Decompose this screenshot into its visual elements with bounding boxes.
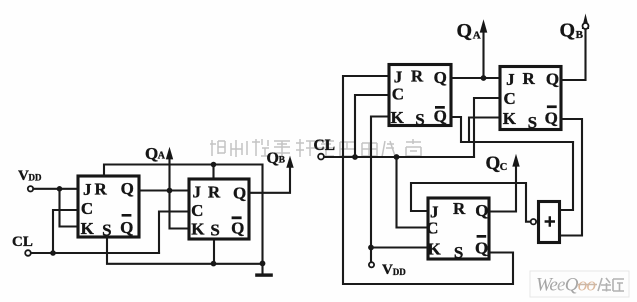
wire K bus down to adder right top	[560, 142, 573, 210]
wire K of FF3 to VDD	[371, 117, 388, 264]
svg-text:Q: Q	[475, 239, 488, 258]
node CL to C of FF5	[394, 154, 400, 160]
svg-text:Q: Q	[560, 20, 576, 42]
inverter bubble on adder input	[531, 219, 536, 224]
svg-text:Q: Q	[267, 150, 279, 167]
wire S bus from FF1 bottom	[107, 237, 263, 264]
svg-text:CL: CL	[12, 234, 33, 250]
svg-text:Q: Q	[120, 218, 133, 237]
wire CL line	[31, 252, 159, 254]
wire J of FF5 feedback to adder input	[411, 183, 530, 222]
svg-text:DD: DD	[393, 267, 406, 277]
FF2 Qbar overbar	[232, 216, 242, 219]
wire R bus from FF1 top to ground vertical	[104, 165, 263, 264]
svg-text:V: V	[382, 262, 393, 278]
wire Qbar of FF4 down to adder right bottom	[560, 119, 582, 236]
svg-text:C: C	[191, 201, 203, 220]
svg-text:R: R	[94, 180, 107, 199]
svg-text:Q: Q	[145, 144, 158, 163]
label VDD (left)	[18, 168, 42, 184]
wire CL to C of FF2	[159, 212, 188, 254]
wire Qbar of FF3 to K bus	[451, 117, 573, 142]
FF1 pin labels J R Q / C / K S Qbar	[81, 179, 134, 240]
svg-text:Q: Q	[233, 183, 246, 202]
flip-flop FF1 box	[78, 176, 139, 237]
node VDD junction	[57, 186, 63, 192]
svg-text:C: C	[81, 199, 93, 218]
svg-text:J: J	[83, 180, 92, 199]
FF4 Qbar overbar	[547, 105, 557, 108]
FF3 Qbar overbar	[435, 106, 445, 109]
wire QA output arrow	[168, 158, 170, 191]
svg-text:S: S	[454, 243, 463, 262]
svg-text:B: B	[279, 156, 286, 166]
terminal VDD (left)	[28, 186, 33, 191]
svg-text:K: K	[191, 219, 205, 238]
svg-text:A: A	[158, 151, 166, 162]
wire Q of FF5 to QC arrow	[489, 166, 516, 212]
flip-flop FF2 box	[189, 179, 249, 239]
wire CL to C of FF4	[474, 98, 499, 157]
svg-text:Q: Q	[434, 68, 447, 87]
node QA junction (right)	[481, 75, 487, 81]
terminal circle on QB arrow	[583, 23, 589, 29]
flip-flop FF5 box	[428, 198, 489, 259]
wire Q of FF2 to QB arrow	[249, 167, 290, 193]
svg-text:C: C	[392, 85, 404, 104]
svg-text:S: S	[528, 113, 537, 132]
svg-text:K: K	[391, 108, 405, 127]
FF5 Qbar overbar	[477, 235, 487, 238]
svg-text:Q: Q	[434, 106, 447, 125]
svg-text:C: C	[503, 89, 515, 108]
svg-text:Q: Q	[231, 218, 244, 237]
wire VDD line to K of FF5	[371, 246, 427, 248]
wire VDD to J of FF1	[33, 188, 77, 190]
svg-text:B: B	[576, 29, 584, 41]
flip-flop FF4 box	[500, 67, 561, 130]
node ground junction	[260, 261, 266, 267]
svg-text:C: C	[426, 219, 438, 238]
wire R of FF2	[212, 165, 214, 180]
adder plus sign	[545, 216, 555, 226]
svg-text:K: K	[427, 240, 441, 259]
label QB (right)	[560, 20, 584, 42]
wire CL to C of FF3	[355, 95, 388, 157]
svg-text:A: A	[473, 29, 481, 41]
adder U+ box	[539, 202, 560, 243]
svg-text:R: R	[453, 199, 466, 218]
svg-text:K: K	[81, 219, 95, 238]
svg-text:J: J	[394, 68, 403, 87]
wire CL to C of FF5	[397, 157, 428, 228]
svg-text:V: V	[18, 168, 29, 184]
label QB (left)	[267, 150, 286, 167]
wire Q of FF1 to J of FF2	[139, 189, 188, 191]
terminal CL (left)	[25, 250, 31, 256]
FF5 pin labels J R Q / C / K S Qbar	[426, 199, 488, 262]
FF4 pin labels J R Q / C / K S Qbar	[503, 69, 559, 132]
svg-text:K: K	[503, 109, 517, 128]
node CL to C of FF3	[352, 154, 358, 160]
svg-text:Q: Q	[121, 179, 134, 198]
svg-text:J: J	[192, 183, 201, 202]
svg-text:Q: Q	[486, 153, 501, 174]
svg-text:Q: Q	[545, 109, 558, 128]
FF1 Qbar overbar	[122, 214, 132, 217]
svg-text:Q: Q	[457, 20, 473, 42]
wire QA output arrow (right)	[482, 32, 484, 78]
watermark 杭州将睿科技有限公司 (pseudo CJK glyphs)	[210, 139, 421, 157]
svg-text:CL: CL	[314, 137, 336, 154]
svg-text:S: S	[210, 221, 219, 240]
svg-text:R: R	[522, 69, 535, 88]
wire VDD branch to K of FF1	[60, 189, 78, 227]
FF2 pin labels J R Q / C / K S Qbar	[191, 182, 246, 239]
svg-text:DD: DD	[29, 173, 42, 183]
ground	[261, 263, 263, 273]
wire Q of FF4 to QB arrow	[561, 30, 586, 80]
node R of FF2 junction	[211, 162, 217, 168]
label QA (right)	[457, 20, 481, 42]
label VDD (right)	[382, 262, 406, 278]
svg-text:Q: Q	[546, 70, 559, 89]
svg-text:Q: Q	[475, 201, 488, 220]
svg-text:J: J	[506, 70, 515, 89]
svg-text:R: R	[208, 182, 221, 201]
terminal VDD (right)	[369, 262, 374, 267]
FF3 pin labels J R Q / C / K S Qbar	[391, 66, 447, 129]
label QC	[486, 153, 508, 174]
wire S of FF2	[213, 240, 215, 264]
wire Q of FF3 to J of FF4	[451, 77, 499, 79]
wire CL line (right)	[324, 156, 474, 158]
svg-text:R: R	[411, 66, 424, 85]
terminal CL (right)	[318, 154, 324, 160]
flip-flop FF3 box	[389, 65, 451, 126]
label QA (left)	[145, 144, 166, 163]
wire CL to C of FF1	[53, 210, 77, 253]
wire K of FF4 stub	[469, 118, 499, 143]
svg-text:S: S	[415, 110, 424, 129]
node VDD junction (right)	[368, 245, 374, 251]
wire J of FF3 feedback from Qbar of FF5	[343, 76, 513, 284]
watermark WeeQoo维库 box	[530, 271, 629, 297]
svg-text:C: C	[500, 162, 508, 173]
wire QA branch to K of FF2	[170, 191, 189, 229]
node CL junction	[50, 250, 56, 256]
node S of FF2 junction	[211, 261, 217, 267]
node QA junction	[167, 188, 173, 194]
